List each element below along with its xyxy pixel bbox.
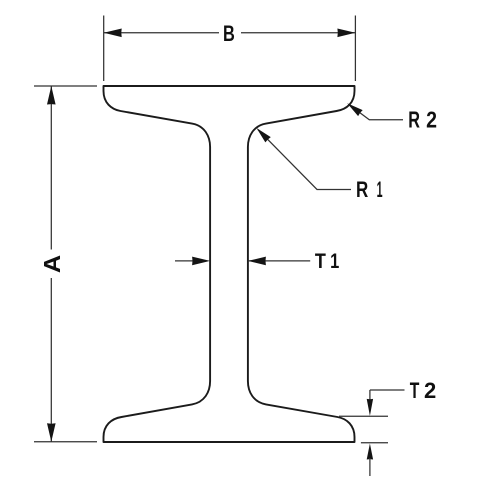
svg-text:B: B — [223, 21, 235, 46]
svg-text:T: T — [315, 249, 326, 273]
R2 leader line — [349, 105, 403, 120]
T2 lower arrow stem — [369, 458, 371, 476]
dimension B line right segment — [241, 32, 355, 34]
R1 leader line — [258, 130, 351, 190]
R2 arrowhead — [347, 103, 362, 116]
dimension A arrow bottom — [47, 423, 56, 442]
dimension T1 left leader line — [175, 260, 193, 262]
T2 lower arrow (points up) — [367, 444, 373, 460]
T2 upper arrow (points down) — [367, 399, 373, 416]
T2 leader horizontal — [370, 389, 405, 391]
dimension T1 arrow left (points right at web) — [192, 257, 210, 266]
svg-text:1: 1 — [377, 177, 383, 202]
R1 arrowhead — [257, 128, 271, 142]
dimension A line lower segment — [50, 278, 52, 442]
svg-text:2: 2 — [424, 378, 436, 403]
svg-text:R: R — [356, 177, 368, 202]
svg-text:2: 2 — [426, 107, 437, 133]
dimension B line left segment — [104, 32, 219, 34]
svg-text:R: R — [408, 107, 420, 133]
dimension B extension line left — [103, 16, 105, 82]
dimension B arrow left — [104, 29, 122, 38]
dimension A extension line bottom — [34, 441, 97, 443]
dimension B extension line right — [354, 16, 356, 82]
dimension T1 arrow right (points left at web) — [248, 257, 266, 266]
dimension A extension line top — [34, 85, 97, 87]
dimension A line upper segment — [50, 86, 52, 250]
dimension T1 right leader line — [248, 260, 310, 262]
T2 extension line upper — [339, 415, 388, 417]
T2 extension line lower — [361, 442, 388, 444]
T2 upper arrow stem — [369, 390, 371, 401]
svg-text:1: 1 — [330, 249, 339, 273]
I-beam cross-section outline — [104, 86, 355, 442]
dimension B arrow right — [337, 29, 355, 38]
dimension A arrow top — [47, 86, 56, 105]
svg-text:A: A — [39, 255, 65, 273]
svg-text:T: T — [410, 378, 420, 403]
